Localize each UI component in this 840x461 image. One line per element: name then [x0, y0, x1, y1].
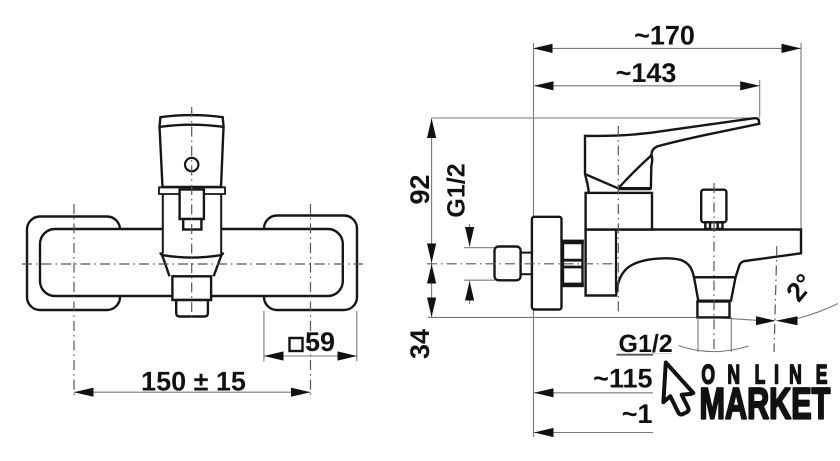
handle top cap line [160, 125, 224, 127]
dim 34 [431, 264, 433, 318]
svg-text:~170: ~170 [634, 21, 695, 51]
wall ext line lower [533, 310, 535, 438]
top reference line [432, 117, 760, 119]
G1/2 ext lines [464, 247, 495, 249]
centerline vertical center [191, 107, 193, 320]
dim 1 (cut by logo) [534, 432, 653, 434]
diverter knob [701, 190, 726, 223]
neck rect [183, 219, 201, 230]
nut [563, 241, 583, 286]
dim 170 [533, 47, 801, 49]
shower outlet trapezoid [694, 277, 736, 300]
wall ext line upper [533, 43, 535, 217]
svg-text:G1/2: G1/2 [619, 330, 673, 358]
svg-text:~1: ~1 [622, 399, 653, 429]
spout mid rect [172, 276, 211, 300]
dim 92 [431, 118, 433, 264]
collar [159, 187, 225, 194]
cartridge rect [180, 190, 204, 220]
centerline left plate [73, 204, 75, 397]
column right edge [615, 230, 617, 293]
wall plate right [264, 216, 357, 311]
wall horizontal centerline [427, 263, 616, 265]
centerline horizontal [22, 263, 363, 265]
base corner curve [585, 175, 589, 192]
svg-text:~143: ~143 [616, 58, 677, 88]
spout trumpet [161, 255, 222, 277]
hex fitting [495, 247, 521, 281]
escutcheon under handle (white block over bar) [163, 194, 221, 254]
dim 143 [534, 85, 760, 87]
svg-text:MARKET: MARKET [700, 380, 831, 429]
flange [532, 217, 562, 310]
pipe to flange [521, 252, 532, 254]
cartridge axis [617, 126, 619, 312]
outlet nut [697, 302, 729, 318]
dim line 150 [74, 391, 311, 393]
aerator rect [176, 300, 208, 317]
svg-text:34: 34 [405, 329, 435, 359]
wall plate left [27, 217, 120, 311]
body bar [40, 229, 343, 296]
ext line 143 right [759, 80, 761, 117]
ext line 170 right [800, 43, 802, 229]
centerline right plate [310, 204, 312, 397]
handle [160, 115, 224, 187]
svg-text:59: 59 [305, 327, 335, 357]
handle button circle [185, 158, 198, 171]
svg-text:92: 92 [405, 174, 435, 204]
handle side [585, 118, 759, 188]
handle bottom second line [618, 189, 651, 191]
ref line 34 bottom [428, 317, 757, 320]
2 degree arc right [798, 304, 839, 319]
lever inner line [619, 156, 652, 189]
knob feet [705, 222, 710, 229]
dim 115 [534, 392, 653, 394]
cursor [663, 363, 693, 415]
G1/2 leader arc [679, 346, 749, 352]
outlet axis [713, 183, 715, 352]
2 degree arrows [756, 316, 776, 325]
pipe below [697, 317, 699, 352]
svg-text:G1/2: G1/2 [443, 163, 471, 217]
dim line square59 [264, 355, 357, 357]
2 degree tilted centerline [774, 246, 777, 352]
svg-text:150 ± 15: 150 ± 15 [141, 367, 246, 397]
ext lines square59 [263, 311, 265, 362]
svg-text:~115: ~115 [593, 364, 652, 394]
square symbol [290, 338, 303, 351]
body outline [586, 230, 801, 296]
escutcheon side [586, 193, 652, 230]
